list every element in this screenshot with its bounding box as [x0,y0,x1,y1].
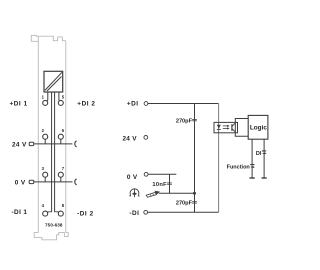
wire -DI horizontal [148,211,219,213]
svg-text:DI: DI [256,151,262,157]
svg-text:+DI 1: +DI 1 [9,100,27,107]
module bottom foot profile [34,233,68,240]
svg-text:+DI: +DI [127,101,139,108]
optocoupler LED [217,125,221,129]
svg-text:270pF: 270pF [176,118,193,124]
wire shield horizontal [159,192,195,194]
terminal 4 [43,211,48,216]
svg-text:-DI: -DI [129,210,139,217]
wire leg to terminal 4 [47,92,52,211]
bus line Function [251,139,253,178]
module left edge [37,36,39,232]
capacitor C3 270pF [192,202,197,203]
module top profile [31,35,66,41]
terminal 2 stem [44,139,46,144]
0V feed square connector [29,180,34,183]
capacitor C2 10nF [167,183,172,184]
module right edge [65,41,67,233]
svg-text:+DI 2: +DI 2 [77,101,95,108]
wire 10nF branch vertical [169,174,171,193]
terminal 7 [58,172,63,177]
0V bus wire [34,181,73,183]
interference arrow [155,191,160,195]
terminal 8 [58,211,63,216]
wire leg to terminal 8 [55,92,59,211]
svg-text:10nF: 10nF [152,182,167,188]
svg-text:Logic: Logic [250,124,267,131]
terminal 3 stem [44,177,46,182]
wire filter vertical [194,104,196,213]
display diagonal 2 [47,77,62,92]
24V bus wire [34,143,73,145]
terminal 6 stem [60,139,62,144]
terminal 1 [43,100,48,105]
bus line DI [263,139,265,178]
wire +DI horizontal [148,103,219,105]
optocoupler phototransistor [231,124,233,131]
svg-text:-DI 2: -DI 2 [77,211,94,218]
24V jumper contact arc [75,141,77,147]
svg-text:270pF: 270pF [176,200,193,206]
terminal 3 [43,172,48,177]
0V jumper contact arc [75,179,77,185]
terminal 2 [43,134,48,139]
wire 0V horizontal [148,173,176,175]
capacitor C1 270pF [192,119,197,120]
functional earth symbol [129,189,139,198]
terminal 5 [58,100,63,105]
wire transistor to logic loop [235,119,248,137]
svg-text:Function: Function [227,165,251,171]
svg-text:0 V: 0 V [15,179,26,186]
svg-text:750-638: 750-638 [45,223,63,228]
wire input vertical (LED branch) [218,104,220,213]
wire leg to terminal 5 [58,92,61,101]
display diagonal 1 [45,72,62,90]
optocoupler U2 box [214,122,238,132]
terminal 6 [58,134,63,139]
optocoupler light arrows [223,126,228,128]
logic block U3 [248,115,268,139]
svg-text:0 V: 0 V [127,174,138,181]
svg-text:24 V: 24 V [12,142,27,149]
junction dot [193,192,196,195]
status display box U1 [44,71,63,92]
terminal 7 stem [60,177,62,182]
wire leg to terminal 1 [46,92,49,101]
svg-text:24 V: 24 V [122,136,137,143]
svg-text:-DI 1: -DI 1 [12,209,28,216]
24V feed square connector [29,142,34,145]
